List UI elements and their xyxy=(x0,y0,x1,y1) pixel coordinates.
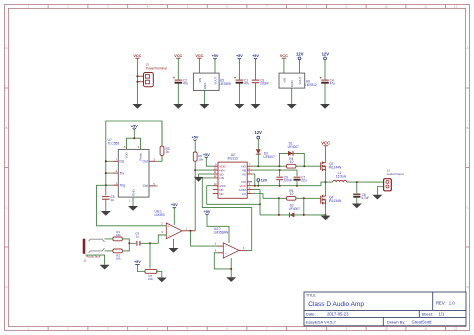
svg-text:REV:: REV: xyxy=(436,300,446,305)
svg-text:C: C xyxy=(467,205,469,209)
svg-text:+5V: +5V xyxy=(252,54,259,58)
svg-text:Class D Audio Amp: Class D Audio Amp xyxy=(308,301,364,308)
svg-text:J1: J1 xyxy=(83,259,87,263)
svg-text:Reset: Reset xyxy=(139,153,143,161)
svg-text:12V: 12V xyxy=(322,51,330,56)
svg-text:12: 12 xyxy=(454,5,458,9)
svg-text:IRLZ44N: IRLZ44N xyxy=(329,199,342,203)
svg-text:D: D xyxy=(5,285,7,289)
svg-text:LM7812: LM7812 xyxy=(305,83,317,87)
svg-text:12V: 12V xyxy=(261,179,268,183)
svg-text:47u: 47u xyxy=(244,82,250,86)
svg-text:22u: 22u xyxy=(301,179,307,183)
svg-text:GND: GND xyxy=(203,82,207,90)
svg-text:12V: 12V xyxy=(255,130,263,135)
svg-text:47u: 47u xyxy=(183,82,189,86)
svg-text:AudioOutput: AudioOutput xyxy=(387,172,404,176)
svg-text:VCC: VCC xyxy=(174,54,182,58)
svg-text:TLC555: TLC555 xyxy=(108,142,120,146)
svg-text:LM358AN: LM358AN xyxy=(214,230,229,234)
svg-text:47u: 47u xyxy=(330,82,336,86)
svg-text:1u: 1u xyxy=(136,235,140,239)
svg-text:A: A xyxy=(467,46,469,50)
svg-text:Ctrl: Ctrl xyxy=(143,184,148,188)
svg-text:220nF: 220nF xyxy=(283,179,292,183)
svg-text:VS: VS xyxy=(242,172,246,176)
svg-text:Trig: Trig xyxy=(120,184,126,188)
svg-text:+5V: +5V xyxy=(171,203,178,207)
svg-text:2k: 2k xyxy=(166,150,170,154)
svg-text:IR2113: IR2113 xyxy=(228,157,239,161)
svg-text:10: 10 xyxy=(290,192,294,196)
svg-text:+5V: +5V xyxy=(236,54,243,58)
svg-text:10k: 10k xyxy=(116,233,121,237)
svg-text:PowerTerminal: PowerTerminal xyxy=(146,67,167,71)
svg-text:Drawn By:: Drawn By: xyxy=(387,320,405,325)
svg-text:220nF: 220nF xyxy=(260,82,269,86)
svg-text:VCC: VCC xyxy=(133,54,141,58)
svg-text:LO: LO xyxy=(242,192,247,196)
svg-text:4.7uF: 4.7uF xyxy=(361,196,369,200)
svg-text:−: − xyxy=(225,245,227,249)
svg-text:10: 10 xyxy=(290,160,294,164)
svg-text:+: + xyxy=(225,252,227,256)
svg-text:VCC: VCC xyxy=(280,54,288,58)
svg-text:+5V: +5V xyxy=(203,153,210,157)
svg-text:−: − xyxy=(168,234,170,238)
svg-text:VCC: VCC xyxy=(321,141,330,146)
svg-text:GreatScott: GreatScott xyxy=(412,320,433,325)
svg-text:VCC: VCC xyxy=(195,54,203,58)
svg-text:+5V: +5V xyxy=(131,124,138,128)
svg-text:GND: GND xyxy=(131,189,135,197)
svg-text:16.5uH: 16.5uH xyxy=(336,174,347,178)
svg-text:1u: 1u xyxy=(110,198,114,202)
svg-text:TITLE:: TITLE: xyxy=(306,294,317,298)
svg-text:LM393: LM393 xyxy=(155,213,165,217)
svg-text:2017-05-23: 2017-05-23 xyxy=(327,312,349,317)
svg-text:VDD: VDD xyxy=(125,152,129,158)
svg-text:VIN: VIN xyxy=(282,78,286,83)
svg-text:12V: 12V xyxy=(296,51,304,56)
svg-text:GND: GND xyxy=(290,80,294,88)
svg-text:A: A xyxy=(6,46,8,50)
svg-text:NC: NC xyxy=(219,192,224,196)
svg-text:Out: Out xyxy=(142,160,147,164)
svg-text:10: 10 xyxy=(384,5,388,9)
svg-text:VIN: VIN xyxy=(198,78,202,83)
svg-text:LIN: LIN xyxy=(219,176,224,180)
svg-text:UF4007: UF4007 xyxy=(263,155,275,159)
svg-text:1/1: 1/1 xyxy=(439,312,445,317)
svg-text:IRLZ44N: IRLZ44N xyxy=(329,166,342,170)
svg-text:1.0: 1.0 xyxy=(449,300,455,305)
svg-text:AudioJack: AudioJack xyxy=(86,255,101,259)
svg-text:LM7805: LM7805 xyxy=(219,82,231,86)
svg-text:B: B xyxy=(467,126,469,130)
svg-text:10k: 10k xyxy=(198,157,203,161)
svg-text:B: B xyxy=(6,126,8,130)
svg-text:UF4007: UF4007 xyxy=(288,145,300,149)
svg-text:D: D xyxy=(467,285,469,289)
svg-text:C: C xyxy=(5,205,7,209)
svg-text:VOUT: VOUT xyxy=(298,76,302,85)
svg-text:+5V: +5V xyxy=(192,136,199,140)
svg-text:10: 10 xyxy=(384,327,388,331)
svg-text:+5V: +5V xyxy=(212,54,219,58)
svg-text:Sheet:: Sheet: xyxy=(422,312,434,317)
svg-text:12: 12 xyxy=(454,327,458,331)
svg-text:VOUT: VOUT xyxy=(213,76,217,85)
svg-text:EasyEDA V4.5.2: EasyEDA V4.5.2 xyxy=(306,320,336,325)
svg-text:+5V: +5V xyxy=(134,260,141,264)
svg-text:10k: 10k xyxy=(116,257,121,261)
svg-text:11: 11 xyxy=(424,327,427,331)
svg-text:+: + xyxy=(168,225,170,229)
svg-text:Date:: Date: xyxy=(306,312,316,317)
svg-text:UF4007: UF4007 xyxy=(289,207,301,211)
svg-text:10k: 10k xyxy=(148,277,153,281)
svg-text:11: 11 xyxy=(424,5,427,9)
svg-text:+5V: +5V xyxy=(204,210,211,214)
svg-text:Dis: Dis xyxy=(120,160,125,164)
